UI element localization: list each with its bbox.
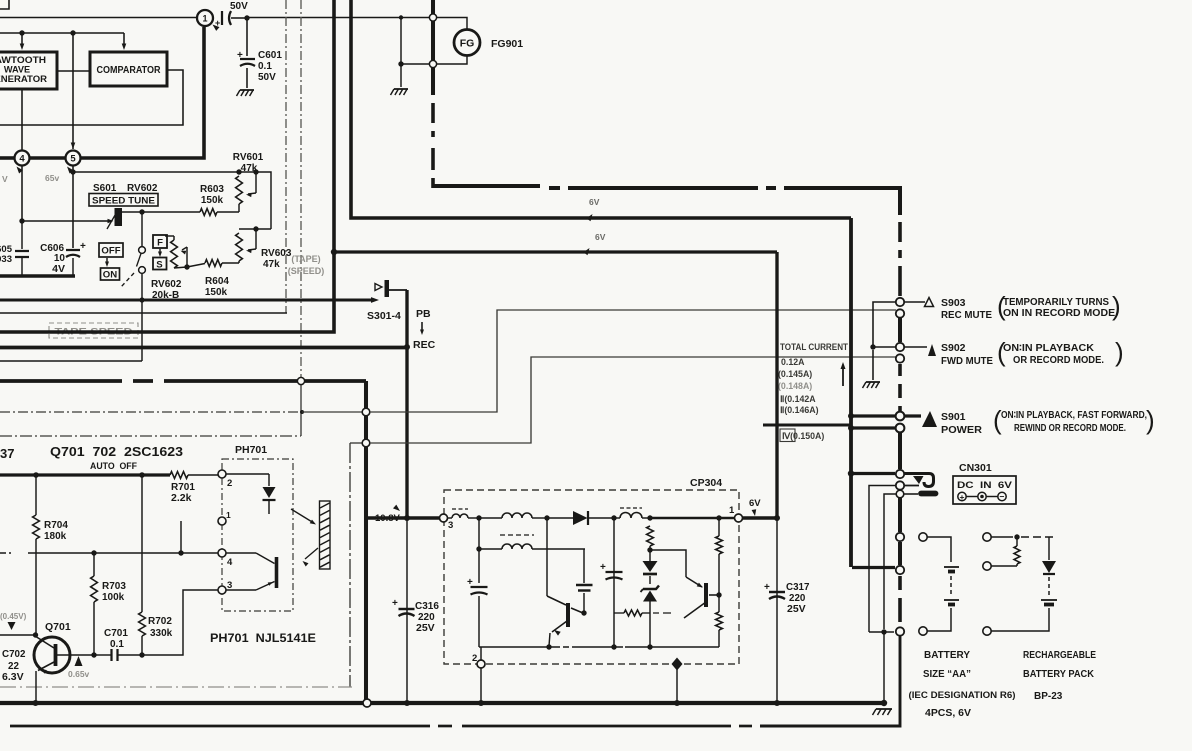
wire x351 y218 6V rail [351,0,851,218]
wire x884 to ground bus [883,632,885,703]
svg-text:2.2k: 2.2k [171,492,192,504]
wire y443 fwd mute sense [350,442,362,444]
wire y518 battery to pin3 [366,516,439,520]
inductor L1 [452,508,468,510]
svg-text:FWD MUTE: FWD MUTE [941,355,993,367]
inductor L3 [620,507,642,509]
junction [244,15,249,20]
svg-text:ON∶IN PLAYBACK, FAST FORWARD,: ON∶IN PLAYBACK, FAST FORWARD, [1001,410,1147,421]
marker 0.65v [75,656,83,666]
rechargeable battery pack [983,533,991,541]
diode D1 [547,517,573,519]
svg-text:OR RECORD MODE.: OR RECORD MODE. [1013,355,1104,366]
marker 0.45V [8,622,16,630]
node 4 [15,151,30,166]
svg-text:R604: R604 [205,276,229,287]
svg-text:S902: S902 [941,342,966,354]
switch S903 [896,298,904,306]
wire x73 into node 5 [72,33,74,149]
wire y443 to y357 [370,357,896,443]
wire y300 S301-4 feed [0,299,373,302]
svg-text:C701: C701 [104,628,128,639]
svg-text:R703: R703 [102,581,126,592]
svg-text:PB: PB [416,308,431,320]
svg-text:BP-23: BP-23 [1034,691,1063,702]
jack switch contact [896,470,904,478]
wire y172 to RV601 [73,172,271,229]
node [611,515,616,520]
wire y553 sense [0,552,14,554]
wire x851 power vertical [849,218,853,567]
svg-text:GENERATOR: GENERATOR [0,74,47,84]
wire return y726 [10,725,430,728]
wire bus y475 [0,473,170,476]
wire thick y158 and x204 [0,156,15,160]
phototransistor [226,552,256,554]
svg-text:PH701 NJL5141E: PH701 NJL5141E [210,633,316,645]
pin 3 [218,586,226,594]
svg-text:6V: 6V [595,232,606,242]
svg-text:FG901: FG901 [491,38,523,50]
svg-text:AUTO OFF: AUTO OFF [90,461,138,471]
trimmer RV602 speed tune [115,208,123,226]
wire y332 and x334 [0,0,334,332]
svg-text:PH701: PH701 [235,444,267,456]
wire y361 [0,360,142,362]
potentiometer RV603 47k [253,226,258,231]
svg-text:Q701 702 2SC1623: Q701 702 2SC1623 [50,445,183,459]
svg-text:0.12A: 0.12A [781,357,805,367]
wire x22 to node 4 [21,89,23,150]
svg-text:F: F [157,238,163,249]
wire power bus y276 [0,274,75,278]
node [544,515,549,520]
capacitor C606 10 4V [66,249,80,251]
svg-text:2: 2 [472,653,477,664]
test arrow node 4 [17,167,23,174]
inductor L2 [479,517,502,519]
switch S901 power [896,412,905,421]
wire x350 down [349,443,351,687]
resistor lower right [716,612,723,630]
wire rail to pin1 [650,517,734,519]
svg-text:033: 033 [0,254,12,265]
svg-text:+: + [215,18,220,28]
svg-text:(0.45V): (0.45V) [0,612,27,621]
wire chain y412 rec mute sense [0,411,302,413]
label tape speed linkage box [49,323,138,338]
svg-text:4V: 4V [52,263,65,275]
wires CN to battery lines [869,486,896,633]
left branch electrolytic [478,518,480,583]
svg-text:CP304: CP304 [690,477,722,489]
transistor Q1 [546,518,548,596]
wire comparator feedback loop [0,70,183,125]
wire emitter to ground bus [35,671,37,703]
wire battery return jog [852,566,895,569]
svg-text:Ⅳ(0.150A): Ⅳ(0.150A) [782,431,824,441]
svg-text:RV601: RV601 [233,152,264,163]
svg-text:1: 1 [226,510,231,520]
svg-text:(TAPE): (TAPE) [291,254,320,264]
svg-text:S903: S903 [941,297,966,309]
connector pin [362,408,370,416]
connector pins battery column [896,533,904,541]
svg-text:S601: S601 [93,183,117,194]
connector pin [297,377,304,384]
svg-text:47k: 47k [263,259,280,270]
node [611,644,616,649]
wire between blocks [57,70,90,72]
svg-text:25V: 25V [787,603,806,615]
wire y313 [0,312,287,314]
block comparator [90,52,167,86]
connector pin on bus [363,699,371,707]
wire pin3 to base node [142,590,218,655]
feedback resistor horizontal [624,610,642,616]
wire R702 branch x142 [141,475,143,612]
ground main [876,708,892,710]
svg-text:): ) [1146,405,1155,435]
pin 1 [735,514,743,522]
svg-text:C316: C316 [415,601,439,612]
generator FG901 [429,14,436,21]
svg-text:50V: 50V [230,1,248,12]
zener diode [643,586,659,590]
node [546,644,551,649]
svg-text:C317: C317 [786,582,810,593]
box F [153,235,167,248]
resistor battery pack [1016,537,1018,546]
resistor R702 330k [139,612,146,636]
svg-text:0.65v: 0.65v [68,669,90,679]
svg-text:TEMPORARILY TURNS: TEMPORARILY TURNS [1003,297,1109,308]
svg-text:4: 4 [19,154,25,165]
chain line x301 [300,0,302,377]
wire collector node [0,634,35,636]
light arrows [291,509,313,523]
wire y221 from node4 branch [22,220,100,222]
svg-text:(0.145A): (0.145A) [778,369,812,379]
svg-text:R702: R702 [148,616,172,627]
node 1 [197,10,213,26]
svg-text:+: + [960,492,965,502]
switch S601 [141,212,143,247]
wire x142 switch branch [141,274,143,362]
wire y252 6V rail [334,250,777,253]
node [647,644,652,649]
resistor R703 100k [93,553,95,576]
svg-text:): ) [1115,337,1124,367]
svg-text:RV602: RV602 [127,183,158,194]
svg-text:150k: 150k [201,195,224,206]
resistor chain with diodes [647,526,654,546]
svg-text:WAVE: WAVE [4,65,30,75]
sensor slit [320,501,331,569]
wire FG ground branch [399,15,403,19]
svg-text:4PCS, 6V: 4PCS, 6V [925,708,971,719]
svg-text:BATTERY: BATTERY [924,650,970,661]
svg-text:C702: C702 [2,649,26,660]
secondary winding [500,534,534,536]
svg-text:RV603: RV603 [261,248,292,259]
snubber capacitor [583,549,585,583]
svg-text:+: + [600,562,606,573]
svg-text:65v: 65v [45,173,59,183]
svg-text:1: 1 [729,505,735,516]
wire ground bus y703 [0,701,884,705]
wire x777 6V vertical [775,252,778,518]
svg-text:+: + [80,241,86,252]
svg-text:CN301: CN301 [959,462,992,474]
svg-text:37: 37 [0,446,14,461]
svg-text:Q701: Q701 [45,621,71,633]
pin 2 [480,647,482,660]
wire y412 to y310 [370,310,896,412]
svg-text:6.3V: 6.3V [2,671,24,683]
ground [394,88,408,90]
node [647,515,652,520]
svg-text:47k: 47k [241,163,258,174]
svg-text:Ⅱ(0.146A): Ⅱ(0.146A) [780,405,819,415]
svg-text:(IEC DESIGNATION R6): (IEC DESIGNATION R6) [909,689,1016,700]
svg-text:ON: ON [103,270,117,281]
svg-text:S301-4: S301-4 [367,310,401,322]
ground [872,350,874,380]
test arrow node 5 [67,167,73,174]
junction 6V at C317 [774,515,780,521]
test arrow at node 1 [213,25,220,31]
wire x73 below node 5 [72,166,74,249]
center electrolytic [613,518,615,647]
resistor R701 2.2k [170,472,188,479]
capacitor C317 220 25V [776,518,778,703]
svg-text:−: − [1000,492,1005,502]
wire bus y33 [0,32,124,34]
capacitor C601 0.1 50V [246,18,248,56]
wire thick chain x433 y188 [431,0,435,95]
svg-text:COMPARATOR: COMPARATOR [97,65,162,76]
svg-text:): ) [1112,291,1121,321]
svg-text:0.1: 0.1 [258,61,272,72]
node [476,515,481,520]
svg-text:R704: R704 [44,520,68,531]
svg-text:0.1: 0.1 [110,639,124,650]
svg-text:100k: 100k [102,592,125,603]
svg-text:25V: 25V [416,622,435,634]
wire x22 below node 4 [21,166,23,222]
svg-text:6V: 6V [589,197,600,207]
svg-text:SIZE “AA”: SIZE “AA” [923,669,971,680]
block off [99,243,123,257]
connector pin [362,439,370,447]
wire chain y687 [0,686,352,688]
svg-text:RV602: RV602 [151,279,182,290]
chain line x286 [285,0,287,313]
svg-text:180k: 180k [44,531,67,542]
wire x407 battery feed [405,290,408,518]
capacitor C316 220 25V [406,518,408,703]
wire bottom rail [479,646,560,648]
svg-text:ON∶IN PLAYBACK: ON∶IN PLAYBACK [1003,343,1094,354]
svg-text:BATTERY PACK: BATTERY PACK [1023,669,1095,680]
wire bus y381 dashed [0,379,122,383]
transistor Q2 [704,583,708,607]
svg-text:REC MUTE: REC MUTE [941,309,992,321]
svg-text:V: V [2,174,8,184]
svg-text:C601: C601 [258,50,282,61]
svg-text:Ⅱ(0.142A: Ⅱ(0.142A [780,394,816,404]
svg-text:330k: 330k [150,628,173,639]
arrow current direction [842,366,844,386]
svg-text:5: 5 [70,154,76,165]
svg-text:REWIND OR RECORD MODE.: REWIND OR RECORD MODE. [1014,423,1126,434]
svg-text:SAWTOOTH: SAWTOOTH [0,55,46,65]
wire pin2 to ground bus [480,668,482,703]
pin 4 [218,549,226,557]
resistor upper right [718,518,720,536]
svg-text:50V: 50V [258,72,276,83]
svg-text:SPEED TUNE: SPEED TUNE [92,196,156,207]
led PH701 [226,473,269,475]
wire top rail to node 1 [0,17,197,19]
wire to FG branch [247,17,429,19]
svg-text:REC: REC [413,339,436,351]
svg-text:150k: 150k [205,287,228,298]
svg-text:+: + [392,598,398,609]
ground [240,89,254,91]
svg-text:DC IN 6V: DC IN 6V [957,479,1013,490]
block sawtooth wave generator [0,52,57,89]
svg-text:FG: FG [460,38,475,50]
svg-text:(SPEED): (SPEED) [288,266,325,276]
svg-text:RECHARGEABLE: RECHARGEABLE [1023,650,1096,661]
svg-text:3: 3 [448,520,453,531]
switch S301-4 [375,284,382,291]
corner box fragment [0,0,9,9]
svg-text:R603: R603 [200,184,224,195]
box S [153,258,167,270]
svg-text:4: 4 [227,557,233,568]
module ground diamond [672,658,683,671]
capacitor C605 0.033 [21,221,23,249]
potentiometer RV602 20k-B [173,236,175,240]
pin 2 [218,470,226,478]
svg-text:TOTAL CURRENT: TOTAL CURRENT [780,342,848,352]
base link Q2 [650,550,686,577]
wire x366 battery rail [364,381,368,703]
wire 6V output [743,516,778,520]
block on [101,268,120,280]
svg-text:2: 2 [227,478,232,489]
svg-text:1: 1 [202,14,207,24]
wire chain y436 [0,435,301,437]
battery AA cells [919,533,927,541]
svg-text:OFF: OFF [101,246,120,257]
block speed tune [89,194,158,207]
wire x900 chain vertical [898,186,902,215]
wire y347 [0,346,407,350]
node 5 [66,151,81,166]
svg-text:S: S [156,260,163,271]
svg-text:ON IN RECORD MODE.: ON IN RECORD MODE. [1003,308,1118,319]
pin 3 [440,514,448,522]
wire stub x181 [180,521,182,553]
pin 1 [218,517,226,525]
svg-text:(0.148A): (0.148A) [778,381,812,391]
wire CN301 feed [851,472,895,475]
resistor R704 180k [35,475,37,515]
svg-text:S901: S901 [941,411,966,423]
switch S902 [896,343,904,351]
svg-text:6V: 6V [749,498,761,509]
svg-text:POWER: POWER [941,424,982,436]
